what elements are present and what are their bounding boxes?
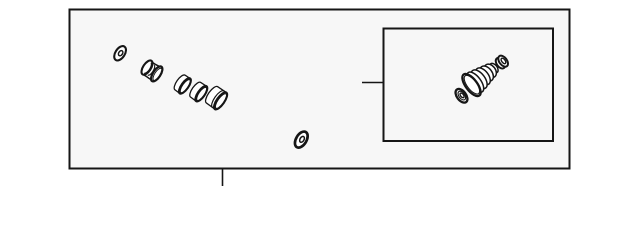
- seal ring 1: [172, 73, 193, 95]
- inset washer: [453, 87, 470, 105]
- washer (lower middle): [292, 129, 310, 149]
- bushing ring 2: [188, 80, 210, 103]
- thread neck: [488, 62, 500, 75]
- thread ridge 4: [482, 62, 499, 80]
- inset detail box: [384, 29, 554, 142]
- thread ridge 2: [473, 65, 494, 87]
- bolt head face: [459, 71, 484, 99]
- outer panel box: [70, 10, 570, 169]
- piston ring 3 (large): [203, 84, 229, 111]
- callout line to inset box: [362, 82, 383, 84]
- grommet bushing: [139, 58, 165, 83]
- bottom leader line: [222, 169, 224, 187]
- thread ridge 1: [468, 67, 490, 91]
- washer (small, upper left): [112, 44, 129, 63]
- inset: adjusting bolt assembly: [459, 48, 514, 99]
- bolt body back: [464, 69, 487, 95]
- bolt tip ring: [494, 56, 507, 70]
- thread ridge 3: [477, 64, 496, 84]
